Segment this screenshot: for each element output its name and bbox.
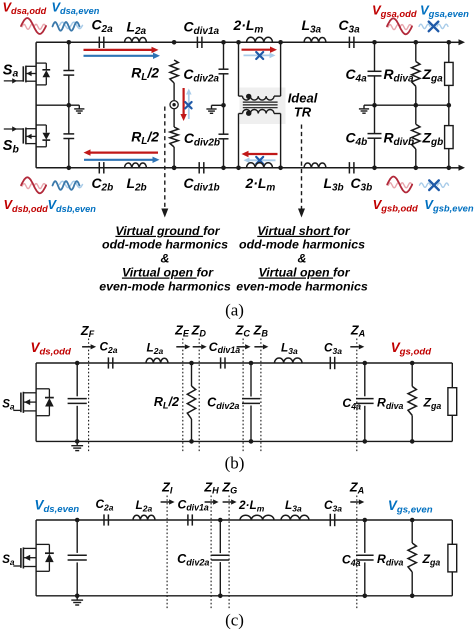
node Vds,even label xyxy=(35,498,80,516)
wire odd-mode current arrow top (red) xyxy=(84,47,159,53)
junction Rdiva top (c) xyxy=(410,518,415,523)
svg-text:Virtual ground for: Virtual ground for xyxy=(115,224,220,238)
junction bottom rail / Rdivb xyxy=(414,166,419,171)
capacitor C4a (c) xyxy=(342,520,374,596)
svg-text:(c): (c) xyxy=(225,611,244,630)
capacitor Cdiv2a (c) xyxy=(177,520,229,596)
node ZB label + probe arrow + dashed line xyxy=(253,324,269,453)
node Vds,odd label xyxy=(31,340,73,358)
dashed callout line virtual short xyxy=(298,125,305,218)
capacitor C3a xyxy=(339,17,361,48)
node ZF label + probe arrow + dashed line xyxy=(80,324,96,452)
transformer secondary winding xyxy=(239,110,281,114)
svg-text:TR: TR xyxy=(294,105,312,120)
inductor 2Lm (c) xyxy=(238,498,274,520)
wire left bus (c) xyxy=(35,520,37,596)
even-mode loop ghost arrow top (light blue) xyxy=(244,53,276,59)
junction Rdiva bottom (c) xyxy=(410,594,415,599)
junction Cdiv2a bottom (c) xyxy=(218,594,223,599)
svg-text:Virtual open for: Virtual open for xyxy=(122,266,214,280)
inductor L2a (b) xyxy=(146,341,168,364)
resistor Rdiva xyxy=(384,42,421,105)
junction top rail / TR right xyxy=(278,40,283,45)
wire bottom rail (c) xyxy=(36,595,452,597)
capacitor C3b xyxy=(349,162,372,194)
svg-text:even-mode harmonics: even-mode harmonics xyxy=(236,279,368,293)
wire even-mode current arrow top (blue) xyxy=(84,53,161,59)
inductor 2Lm bottom (on rail) xyxy=(245,163,276,194)
resistor Rdiva (c) xyxy=(377,520,416,596)
wire bottom rail xyxy=(36,167,449,169)
even-mode waveform icon (blue wave) xyxy=(53,22,83,31)
ground centre (divider midpoint) xyxy=(206,105,216,113)
node Vdsb,odd label xyxy=(4,197,49,214)
ground left mid xyxy=(74,105,84,113)
impedance Zgb box xyxy=(422,105,454,168)
resistor RL/2 upper xyxy=(131,60,178,83)
transformer core lines xyxy=(243,102,278,108)
node Vgs,even label xyxy=(388,498,433,516)
node ZH label + probe arrow + dashed line xyxy=(203,481,219,610)
svg-text:Virtual open for: Virtual open for xyxy=(258,266,350,280)
inductor L3a (b) xyxy=(275,341,303,364)
capacitor C3a (b) xyxy=(324,341,342,370)
junction top rail / Cdiv2a branch xyxy=(221,40,226,45)
junction top rail / TR left xyxy=(236,40,241,45)
wire top rail xyxy=(36,41,449,43)
wire mid stub to Cdiv node xyxy=(212,104,224,106)
junction mid rail / Zg branch xyxy=(447,103,452,108)
junction top rail / Zga xyxy=(447,40,452,45)
even-mode icon gsa (blue X) xyxy=(419,22,448,32)
junction shunt bottom (c) xyxy=(75,594,80,599)
inductor L3a (c) xyxy=(281,498,309,520)
inductor L2a (c) xyxy=(133,498,155,520)
wire left drain bus Sa/Sb xyxy=(35,42,37,168)
node Vdsa,even label xyxy=(52,0,100,16)
junction mid rail / shunt caps xyxy=(67,103,72,108)
junction bottom rail / TR left xyxy=(236,166,241,171)
junction bottom rail / Cdiv branch xyxy=(221,166,226,171)
junction Rdiva bottom (b) xyxy=(410,439,415,444)
capacitor C2b xyxy=(92,162,114,193)
junction Cdiv2a top (b) xyxy=(249,361,254,366)
junction bottom rail / lower shunt cap xyxy=(67,166,72,171)
node Sa label xyxy=(3,62,19,79)
capacitor shunt lower (drain-source Sb) xyxy=(63,105,74,168)
wire Cdiv branch vertical xyxy=(223,42,225,168)
node Vgsa,even label xyxy=(420,2,469,19)
transformer background xyxy=(240,88,286,125)
wire even-mode arrow up centre (light blue) xyxy=(186,89,192,120)
junction Rdiva top (b) xyxy=(410,361,415,366)
capacitor C4b xyxy=(346,105,382,168)
node ZC label + probe arrow + dashed line xyxy=(235,324,251,453)
odd-mode waveform icon (red sine) xyxy=(21,18,46,34)
junction Cdiv2a bottom (b) xyxy=(249,439,254,444)
wire top rail end arrow xyxy=(449,39,465,45)
odd-mode icon gsb (red sine) xyxy=(387,177,412,193)
junction C4a top (c) xyxy=(363,518,368,523)
capacitor Cdiv2a (b) xyxy=(207,363,260,441)
capacitor Cdiv2b xyxy=(184,130,229,149)
inductor L3a xyxy=(302,17,326,42)
impedance Zga box xyxy=(422,42,454,105)
caption (b) xyxy=(225,454,245,473)
transformer primary polarity dot xyxy=(246,94,251,99)
capacitor C3a (c) xyxy=(324,498,342,526)
transformer primary winding xyxy=(239,96,281,100)
node ZA label + probe arrow + dashed line (b) xyxy=(350,324,365,453)
caption (a) xyxy=(225,301,244,320)
wire transformer primary left drop xyxy=(238,42,240,96)
impedance Zga (b) xyxy=(423,363,457,441)
node ZD label + probe arrow + dashed line xyxy=(191,324,207,453)
junction RL2 bottom (b) xyxy=(189,439,194,444)
wire odd-mode current arrow bottom (red, left) xyxy=(84,149,159,155)
junction shunt bottom (b) xyxy=(75,439,80,444)
note virtual-ground text block xyxy=(99,224,231,294)
wire transformer primary right drop xyxy=(280,42,282,96)
junction top rail / C4a xyxy=(372,40,377,45)
svg-text:odd-mode harmonics: odd-mode harmonics xyxy=(239,238,365,252)
node ZA label + probe arrow + dashed line (c) xyxy=(349,481,364,610)
wire transformer secondary right drop xyxy=(280,114,282,168)
impedance Zga (c) xyxy=(422,520,457,596)
junction bottom rail / Zgb xyxy=(447,166,452,171)
resistor Rdiva (b) xyxy=(377,363,416,441)
even-mode loop ghost arrow bottom (light blue) xyxy=(244,158,276,164)
wire transformer secondary left drop xyxy=(238,114,240,168)
wire mid rail left xyxy=(36,104,79,106)
junction shunt top (b) xyxy=(75,361,80,366)
even-mode X bottom loop (blue) xyxy=(256,157,263,164)
svg-text:even-mode harmonics: even-mode harmonics xyxy=(99,279,231,293)
junction Cdiv node mid xyxy=(221,103,226,108)
transistor Q Sb xyxy=(4,125,50,147)
capacitor Cdiv1b xyxy=(184,162,220,193)
node Vgsa,odd label xyxy=(372,2,417,19)
even-mode icon gsb (blue X) xyxy=(420,180,449,190)
node Ideal TR label xyxy=(288,91,318,120)
junction C4a bottom (c) xyxy=(363,594,368,599)
junction bottom rail / C4b xyxy=(372,166,377,171)
junction shunt top (c) xyxy=(75,518,80,523)
resistor RL/2 (b) xyxy=(154,363,196,441)
even-mode icon dsb (blue wave) xyxy=(53,181,83,190)
junction top rail / Rdiva xyxy=(414,40,419,45)
ground right mid xyxy=(359,105,369,113)
wire mid rail right xyxy=(364,104,449,106)
junction mid rail / Rdiv branch xyxy=(414,103,419,108)
wire top rail (c) xyxy=(36,519,452,521)
note virtual-short text block xyxy=(236,224,368,294)
junction top rail / upper shunt cap xyxy=(67,40,72,45)
capacitor Cdiv1a (b) xyxy=(209,340,240,369)
svg-text:&: & xyxy=(161,252,170,266)
resistor Rdivb xyxy=(384,105,421,168)
node Vgs,odd label xyxy=(391,340,433,358)
capacitor C2a (b) xyxy=(100,340,118,369)
ground (c) xyxy=(71,596,83,605)
wire left bus (b) xyxy=(35,363,37,441)
node Vdsb,even label xyxy=(48,197,97,214)
node ZI label + probe arrow + dashed line xyxy=(161,481,175,610)
node Sb label xyxy=(3,138,20,155)
node Vgsb,odd label xyxy=(373,197,418,214)
junction bottom rail / RL2 branch xyxy=(172,166,177,171)
junction top rail / RL2 branch xyxy=(172,40,177,45)
capacitor C2a xyxy=(92,17,114,49)
even-mode X top loop (blue) xyxy=(256,52,263,59)
svg-text:(a): (a) xyxy=(225,301,244,320)
node ZG label + probe arrow + dashed line xyxy=(221,481,237,610)
caption (c) xyxy=(225,611,244,630)
capacitor Cdiv1a (c) xyxy=(178,497,209,525)
capacitor C4a xyxy=(346,42,382,105)
node ZE label + probe arrow + dashed line xyxy=(174,324,190,453)
capacitor shunt Sa (c) xyxy=(68,520,87,596)
wire odd-mode loop arrow bottom (red, left) xyxy=(242,151,278,157)
transformer secondary polarity dot xyxy=(246,111,251,116)
capacitor Cdiv1a xyxy=(184,19,220,49)
wire odd-mode loop arrow top (red) xyxy=(242,47,278,53)
capacitor C4a (b) xyxy=(342,363,373,441)
junction mid rail / C4 branch xyxy=(372,103,377,108)
odd-mode icon gsa (red sine) xyxy=(387,18,412,34)
odd-mode icon dsb (red sine) xyxy=(21,177,46,193)
capacitor Cdiv2a xyxy=(183,66,228,85)
node virtual ground symbol (circle-dot) xyxy=(170,101,178,109)
capacitor shunt Sa (b) xyxy=(68,363,87,441)
junction Cdiv2a top (c) xyxy=(218,518,223,523)
ground (b) xyxy=(71,441,83,450)
transistor Sa (c) xyxy=(13,544,54,571)
capacitor C2a (c) xyxy=(96,497,114,526)
node Sa label (b) xyxy=(2,399,15,412)
node Sa label (c) xyxy=(2,554,15,567)
svg-text:Ideal: Ideal xyxy=(288,91,318,106)
node Vdsa,odd label xyxy=(3,0,47,16)
junction C4a bottom (b) xyxy=(363,439,368,444)
junction bottom rail / RL2 branch dot2 xyxy=(172,166,177,171)
junction RL2 top (b) xyxy=(189,361,194,366)
transistor Q Sa xyxy=(4,63,50,85)
inductor L2a xyxy=(125,19,147,43)
dashed callout line virtual ground xyxy=(161,107,168,218)
wire RL2 branch segments xyxy=(173,83,175,127)
wire RL2 branch to bottom rail xyxy=(173,147,175,168)
junction bottom rail / TR right xyxy=(278,166,283,171)
svg-text:odd-mode harmonics: odd-mode harmonics xyxy=(102,238,228,252)
even-mode X centre (blue) xyxy=(185,102,191,108)
node Vgsb,even label xyxy=(424,197,474,214)
wire bottom rail (b) xyxy=(36,440,452,442)
svg-text:&: & xyxy=(298,252,307,266)
svg-text:(b): (b) xyxy=(225,454,245,473)
wire top rail (b) xyxy=(36,362,452,364)
inductor 2Lm top (on rail) xyxy=(233,17,273,42)
inductor L3b xyxy=(304,163,344,194)
inductor L2b xyxy=(125,163,147,193)
junction C4a top (b) xyxy=(363,361,368,366)
wire bottom rail end arrow xyxy=(449,165,465,171)
wire odd-mode arrow down centre (red) xyxy=(180,88,186,121)
transistor Sa (b) xyxy=(13,389,54,416)
capacitor shunt upper (drain-source Sa) xyxy=(63,42,74,105)
wire even-mode current arrow bottom (blue) xyxy=(84,157,160,163)
resistor RL/2 lower xyxy=(131,127,178,147)
svg-text:Virtual short for: Virtual short for xyxy=(257,224,351,238)
